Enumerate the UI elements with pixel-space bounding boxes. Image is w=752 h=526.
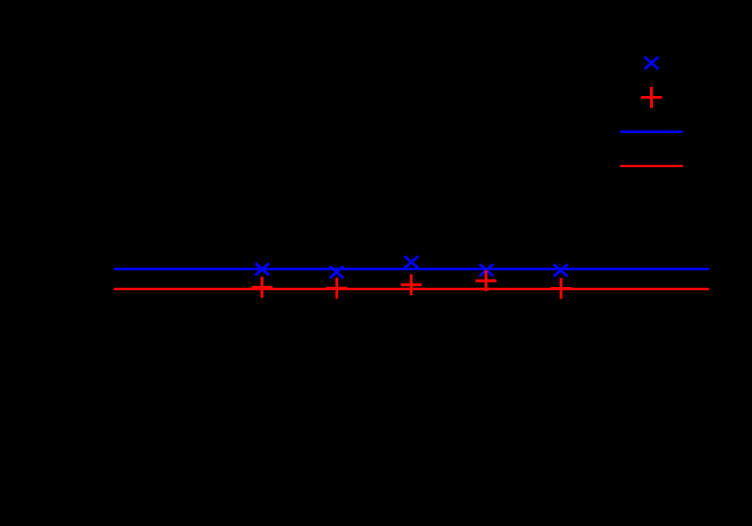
- legend entry 1 sample: blue x marker: [645, 57, 659, 69]
- red + data point 2: [326, 278, 347, 299]
- blue x data point 3: [405, 256, 419, 268]
- red + data point 3: [401, 274, 422, 295]
- red + data point 4: [476, 270, 497, 291]
- red fit line (series 2 mean): [114, 288, 709, 291]
- red + data point 1: [252, 277, 273, 298]
- blue x data point 4: [480, 264, 494, 276]
- legend entry 3 sample: blue line segment: [620, 131, 683, 133]
- legend entry 2 sample: red + marker: [641, 87, 662, 108]
- red + data point 5: [551, 278, 572, 299]
- blue x data point 5: [554, 264, 568, 276]
- blue fit line (series 1 mean): [114, 268, 709, 271]
- legend entry 4 sample: red line segment: [620, 165, 683, 167]
- blue x data point 1: [255, 263, 269, 275]
- blue x data point 2: [330, 266, 344, 278]
